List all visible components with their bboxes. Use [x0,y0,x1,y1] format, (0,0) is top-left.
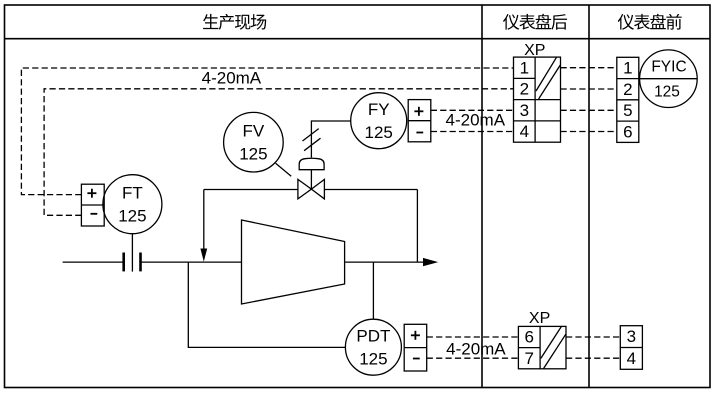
svg-text:2: 2 [520,80,529,99]
svg-text:6: 6 [524,328,533,347]
PDT tap line from outlet pipe [372,262,374,319]
safety barrier slashes (top XP) [536,57,557,91]
terminal block XP (bottom) outline [518,326,566,368]
svg-text:3: 3 [627,327,636,346]
FY terminal - [416,132,423,134]
svg-text:5: 5 [623,101,632,120]
svg-text:125: 125 [239,145,267,164]
wire: XP6 to panel terminal 3 (dashed) [566,336,620,338]
svg-text:4-20mA: 4-20mA [446,339,506,358]
PDT terminal box [404,324,427,371]
panel terminal strip (1,2,5,6) outline [617,57,639,142]
terminal block XP (top) outline [514,57,561,142]
wire: XP2 to panel terminal 2 (dashed) [561,88,617,90]
svg-text:4-20mA: 4-20mA [446,110,506,129]
pneumatic signal slashes [303,129,319,141]
valve tag FV125 [224,112,284,172]
wire: XP4 to panel terminal 6 (dashed) [561,131,617,133]
svg-text:4: 4 [627,349,636,368]
FT impulse line [131,234,133,272]
valve actuator diaphragm [299,158,324,169]
svg-text:3: 3 [520,101,529,120]
wire: FT+ to XP terminal 1 (dashed) [21,68,513,195]
svg-text:125: 125 [365,123,393,142]
svg-text:7: 7 [524,349,533,368]
wire: FT- to XP terminal 2 (dashed) [44,89,513,216]
svg-text:XP: XP [524,42,545,59]
valve stem [310,170,312,189]
svg-text:FT: FT [122,184,143,203]
svg-text:2: 2 [623,80,632,99]
svg-text:FV: FV [243,122,265,141]
zone label 仪表盘前 [618,14,682,30]
control valve FV body [298,179,312,199]
FT terminal - [91,213,98,215]
svg-text:1: 1 [623,59,632,78]
wire: FY- to XP terminal 4 (dashed) [431,131,514,133]
svg-text:PDT: PDT [356,327,390,346]
FY terminal + [414,107,423,116]
wire: XP1 to panel terminal 1 (dashed) [561,67,617,69]
svg-text:4: 4 [520,122,529,141]
wire: PDT+ to XP terminal 6 (dashed) [427,336,519,338]
svg-text:125: 125 [118,207,146,226]
safety barrier slashes (bottom XP) [541,327,562,359]
zone divider: field / panel-rear [481,5,483,388]
FY terminal box [408,100,431,142]
svg-text:6: 6 [623,122,632,141]
recycle line: left vertical with arrow into pipe [203,190,205,251]
svg-text:125: 125 [654,84,680,101]
zone label 仪表盘后 [503,14,567,30]
process inlet pipe [63,261,124,263]
outlet pipe with flow arrow [345,261,424,263]
svg-text:FY: FY [368,100,390,119]
dP transmitter PDT125 [345,319,401,375]
wire: FY+ to XP terminal 3 (dashed) [431,109,514,111]
zone label 生产现场 [203,14,266,30]
PDT terminal + [411,331,420,340]
PDT tap line from inlet pipe [188,262,345,347]
FT terminal box [81,184,104,226]
recycle line: right vertical [416,190,418,263]
orifice plate flow element [122,253,125,272]
compressor body [242,220,345,304]
FT terminal + [87,189,96,198]
controller FYIC125 [640,50,698,108]
signal line FY to valve [311,121,350,158]
svg-text:4-20mA: 4-20mA [202,68,262,87]
svg-text:1: 1 [520,58,529,77]
svg-text:XP: XP [529,310,550,327]
computing relay FY125 [351,93,407,149]
svg-text:125: 125 [359,350,387,369]
flow transmitter FT125 [103,175,162,234]
wire: XP3 to panel terminal 5 (dashed) [561,109,617,111]
svg-text:FYIC: FYIC [651,58,686,75]
FV tag leader line [276,163,292,176]
header row separator [5,38,711,40]
recycle line: top horizontal [204,189,298,191]
panel terminal strip (3,4) outline [620,326,642,370]
zone divider: panel-rear / panel-front [588,5,590,388]
wire: PDT- to XP terminal 7 (dashed) [427,357,519,359]
wire: XP7 to panel terminal 4 (dashed) [566,357,620,359]
PDT terminal - [413,358,420,360]
